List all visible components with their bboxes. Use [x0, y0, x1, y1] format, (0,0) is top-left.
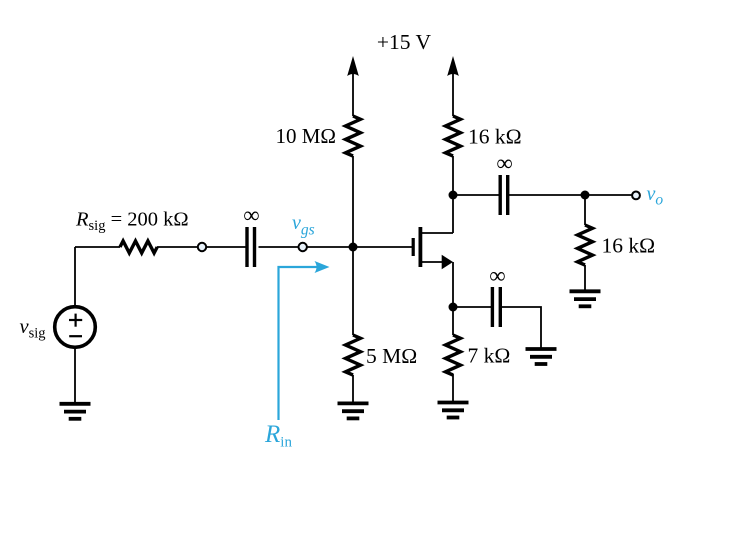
svg-text:16 kΩ: 16 kΩ: [468, 125, 522, 149]
svg-text:∞: ∞: [243, 202, 259, 227]
svg-text:∞: ∞: [489, 263, 505, 288]
svg-text:Rin: Rin: [264, 421, 292, 451]
svg-text:10 MΩ: 10 MΩ: [275, 124, 336, 148]
svg-text:7 kΩ: 7 kΩ: [468, 344, 511, 368]
svg-text:16 kΩ: 16 kΩ: [602, 234, 656, 258]
svg-text:vgs: vgs: [292, 212, 315, 239]
svg-text:Rsig = 200 kΩ: Rsig = 200 kΩ: [75, 209, 189, 235]
svg-text:vo: vo: [647, 183, 664, 209]
svg-text:vsig: vsig: [20, 316, 46, 342]
svg-text:+15 V: +15 V: [377, 30, 432, 54]
svg-text:∞: ∞: [496, 151, 512, 176]
svg-text:5 MΩ: 5 MΩ: [366, 344, 417, 368]
